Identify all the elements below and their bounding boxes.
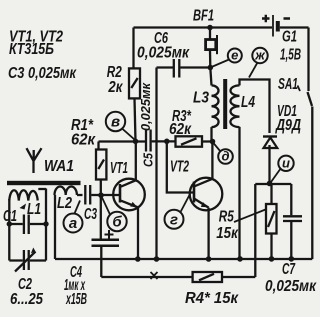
node circle i bbox=[278, 156, 293, 171]
svg-text:SA1: SA1 bbox=[278, 76, 298, 93]
node circle zh bbox=[252, 48, 267, 63]
junction bus / C7 bbox=[289, 256, 295, 262]
svg-text:ж: ж bbox=[254, 48, 266, 63]
label pointer e bbox=[212, 60, 230, 68]
wire C6 right lead bbox=[180, 66, 209, 68]
wire VT2 emitter lead bbox=[207, 208, 209, 259]
wire C4 top lead bbox=[100, 195, 102, 239]
label pointer i bbox=[271, 168, 281, 182]
label L1 arrow head bbox=[20, 204, 27, 210]
wire R3 to VT2 collector node bbox=[202, 140, 213, 142]
svg-text:62к: 62к bbox=[71, 132, 96, 149]
inductor L1 bbox=[9, 190, 37, 200]
svg-text:62к: 62к bbox=[169, 121, 192, 138]
svg-text:VT2: VT2 bbox=[170, 159, 189, 176]
svg-text:С7: С7 bbox=[282, 261, 296, 278]
wire tank right vertical bbox=[45, 189, 47, 261]
svg-text:L2: L2 bbox=[57, 195, 72, 212]
node V junction R2/VT1 collector bbox=[133, 139, 139, 145]
junction bus / VT1 emitter bbox=[135, 256, 141, 262]
wire VT2 collector lead bbox=[211, 142, 213, 179]
wire R1 top corner bbox=[97, 142, 99, 150]
wire C7 bottom lead bbox=[290, 222, 292, 259]
svg-text:х15В: х15В bbox=[65, 291, 87, 308]
svg-text:г: г bbox=[170, 211, 178, 228]
capacitor C5 bbox=[146, 130, 151, 152]
svg-text:д: д bbox=[221, 149, 229, 164]
wire VT1 emitter lead bbox=[137, 208, 139, 260]
wire C5 to R3 bbox=[152, 140, 176, 142]
wire node I top wire bbox=[255, 183, 291, 185]
node circle e bbox=[228, 49, 242, 63]
svg-text:R4* 15к: R4* 15к bbox=[185, 290, 239, 307]
capacitor C2 arrow head bbox=[31, 248, 36, 254]
wire R5 top lead bbox=[270, 184, 272, 204]
svg-text:е: е bbox=[231, 48, 238, 63]
resistor R2 bbox=[129, 68, 140, 98]
ferrite rod bbox=[7, 181, 81, 185]
transistor VT1 emitter arrow bbox=[130, 202, 137, 207]
wire return riser to node I bbox=[254, 184, 256, 277]
svg-text:0,025мк: 0,025мк bbox=[137, 45, 190, 62]
svg-text:Д9Д: Д9Д bbox=[274, 117, 301, 134]
svg-text:КТ315Б: КТ315Б bbox=[9, 41, 54, 58]
svg-text:R5: R5 bbox=[219, 209, 235, 226]
headphone BF1 lead bottom bbox=[209, 50, 212, 68]
wire top bus bbox=[134, 26, 273, 28]
junction tank right / C1 bbox=[43, 221, 48, 226]
capacitor C3 bbox=[85, 185, 90, 205]
wire R1 bottom lead bbox=[100, 180, 102, 196]
svg-text:С3 0,025мк: С3 0,025мк bbox=[8, 65, 77, 82]
wire VT1 base lead bbox=[101, 194, 120, 196]
node circle b bbox=[107, 212, 126, 231]
svg-text:L4: L4 bbox=[241, 94, 255, 111]
resistor R4 bbox=[193, 272, 222, 282]
wire L4 top lead bbox=[240, 80, 270, 134]
svg-text:б: б bbox=[112, 214, 122, 231]
wire tank left vertical bbox=[8, 199, 10, 261]
wire R2 top lead bbox=[132, 28, 134, 69]
svg-text:0,025мк: 0,025мк bbox=[139, 82, 153, 131]
wire bottom bus bbox=[55, 258, 312, 260]
wire tank bottom wire bbox=[9, 259, 46, 261]
svg-text:L1: L1 bbox=[27, 201, 41, 218]
wire VD1 to node I bbox=[268, 145, 270, 184]
wire R5 bottom lead bbox=[270, 234, 272, 260]
wire VT1 collector lead bbox=[135, 141, 137, 180]
wire C3 to base node bbox=[91, 194, 99, 196]
junction bus / C6 riser bbox=[154, 256, 160, 262]
wire audio return line left bbox=[101, 276, 192, 278]
wire VT2 base L-wire bbox=[167, 141, 194, 192]
svg-text:L3: L3 bbox=[193, 90, 209, 107]
label pointer b bbox=[102, 198, 110, 215]
inductor L2 bbox=[55, 187, 77, 196]
label pointer a bbox=[75, 201, 81, 214]
wire C6 ground riser bbox=[155, 68, 157, 260]
wire battery to switch bbox=[280, 26, 309, 28]
svg-text:С5: С5 bbox=[141, 152, 155, 167]
transformer core bbox=[223, 79, 227, 129]
label pointer g bbox=[181, 194, 191, 212]
capacitor C4 bbox=[92, 240, 120, 246]
battery G1 bbox=[272, 15, 274, 37]
junction bus / R5 bbox=[269, 256, 275, 262]
wire L4 bottom lead bbox=[238, 127, 240, 259]
inductor L3 bbox=[210, 68, 211, 86]
resistor R5 bbox=[266, 204, 277, 234]
junction bus / L4 bbox=[237, 256, 243, 262]
svg-text:0,025мк: 0,025мк bbox=[265, 278, 317, 295]
junction bus / VT2 emitter bbox=[206, 256, 212, 262]
transistor VT2 bbox=[190, 178, 223, 211]
svg-text:и: и bbox=[282, 155, 290, 170]
wire C4 bottom lead bbox=[100, 246, 102, 277]
svg-text:6...25: 6...25 bbox=[10, 291, 44, 308]
wire C7 top lead bbox=[290, 184, 292, 215]
capacitor C1 bbox=[24, 215, 29, 235]
svg-text:С1: С1 bbox=[3, 208, 17, 225]
wire tank mid wire bbox=[9, 223, 46, 225]
junction C5/R3/VT2 base bbox=[164, 139, 170, 145]
inductor L4 bbox=[230, 85, 239, 127]
label pointer R5 bbox=[234, 210, 266, 223]
wire L2 to C3 bbox=[77, 194, 83, 196]
label pointer d bbox=[213, 143, 221, 152]
svg-text:VT1: VT1 bbox=[110, 160, 128, 177]
svg-text:С3: С3 bbox=[84, 206, 97, 223]
node D junction R3/L3/VT2 collector bbox=[210, 139, 216, 145]
wire L1 right connector bbox=[38, 188, 46, 190]
resistor R1 bbox=[96, 150, 106, 180]
node I junction VD1/R5/C7 bbox=[267, 181, 273, 187]
headphone BF1 lead top bbox=[209, 28, 211, 40]
antenna WA1 bbox=[27, 148, 42, 173]
node B main wire bbox=[99, 140, 146, 142]
svg-text:а: а bbox=[69, 215, 77, 232]
svg-text:G1: G1 bbox=[282, 29, 297, 46]
wire R2 bottom lead bbox=[135, 98, 136, 141]
node circle d bbox=[218, 149, 233, 164]
resistor R3 bbox=[176, 136, 203, 146]
label pointer zh bbox=[249, 63, 258, 78]
svg-text:BF1: BF1 bbox=[193, 8, 214, 25]
transistor VT2 emitter arrow bbox=[201, 202, 208, 207]
headphone BF1 bbox=[206, 40, 216, 50]
diode VD1 bbox=[263, 135, 277, 137]
node B junction C3/R1/C4/VT1 base bbox=[98, 192, 104, 198]
node circle v bbox=[106, 112, 125, 131]
node circle g bbox=[165, 210, 184, 229]
wire audio return line right bbox=[222, 276, 255, 278]
svg-text:WA1: WA1 bbox=[44, 158, 74, 175]
wire C6 left lead bbox=[157, 66, 174, 68]
breaking point X mark bbox=[151, 272, 158, 279]
node E junction BF1/L3/C6 bbox=[208, 65, 214, 71]
capacitor C7 bbox=[283, 216, 302, 221]
svg-text:в: в bbox=[111, 114, 120, 131]
svg-text:1,5В: 1,5В bbox=[280, 47, 301, 64]
switch SA1 label tail bbox=[298, 86, 301, 92]
svg-text:2к: 2к bbox=[108, 79, 124, 96]
junction tank left / C1 bbox=[7, 221, 12, 226]
label pointer v bbox=[122, 129, 135, 140]
node circle a bbox=[64, 214, 83, 233]
wire L2 left lead bbox=[54, 195, 56, 259]
capacitor C2 variable bbox=[24, 250, 29, 270]
capacitor C4 plus sign bbox=[105, 230, 114, 239]
transistor VT1 bbox=[113, 179, 145, 211]
switch SA1 bbox=[307, 28, 309, 92]
capacitor C6 bbox=[174, 59, 180, 78]
svg-text:15к: 15к bbox=[216, 225, 238, 242]
junction top bus / BF1 bbox=[207, 25, 213, 31]
